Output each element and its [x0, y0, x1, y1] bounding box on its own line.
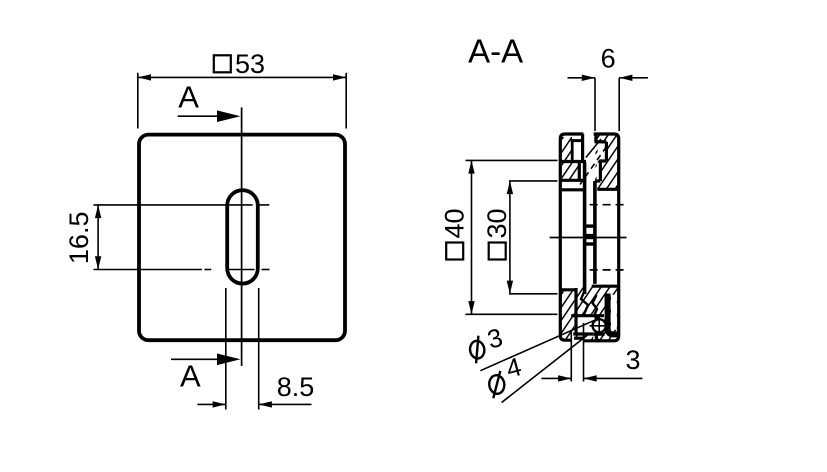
dim 30 extension lines — [509, 180, 558, 182]
svg-text:3: 3 — [625, 345, 640, 375]
leader dia3 — [480, 320, 594, 370]
label dia4 — [488, 351, 524, 398]
svg-text:3: 3 — [484, 322, 506, 355]
slot bottom edge left — [560, 288, 577, 291]
dim 6 line — [568, 77, 596, 79]
channel right wall — [593, 181, 597, 284]
dim 40 extension lines — [466, 159, 558, 161]
channel cross bars — [585, 224, 595, 227]
svg-text:6: 6 — [601, 43, 616, 73]
step left — [578, 161, 581, 180]
countersink zigzag right — [593, 295, 598, 317]
svg-text:16.5: 16.5 — [64, 212, 94, 265]
channel hatch diagonal — [586, 139, 601, 158]
section arrow bottom — [171, 354, 241, 366]
J hook — [608, 294, 618, 335]
dim 30 text — [482, 208, 512, 259]
hidden dashed bottom — [590, 269, 627, 271]
svg-text:53: 53 — [235, 49, 265, 79]
svg-text:40: 40 — [440, 208, 470, 238]
svg-text:30: 30 — [482, 208, 512, 238]
boss cavity top — [571, 314, 604, 317]
dim 40 line — [471, 160, 473, 314]
dim 40 text — [440, 208, 470, 259]
boss cavity bottom — [573, 332, 593, 335]
section arrow top — [178, 110, 241, 122]
outer contour of cap section — [560, 134, 583, 340]
dim 30 line — [509, 181, 511, 294]
screw cross — [590, 325, 610, 327]
boss cavity right wall — [595, 316, 598, 334]
channel dashed slant — [580, 147, 607, 185]
center line horizontal — [550, 237, 627, 239]
top arm bottom edge left — [561, 160, 586, 163]
dim 53 line — [138, 76, 346, 78]
slot top edge right — [597, 188, 617, 191]
dim 16.5 line — [97, 205, 99, 270]
svg-text:A: A — [180, 358, 201, 393]
below screw ledge — [593, 333, 604, 336]
leader dia4 — [502, 334, 590, 403]
dim 3 line — [541, 377, 571, 379]
channel left wall — [583, 162, 587, 294]
front view plate outline — [139, 135, 345, 341]
countersink zigzag left — [581, 291, 588, 316]
dim 3 extension lines — [570, 330, 572, 382]
dim 8.5 extension lines — [225, 288, 227, 410]
svg-text:8.5: 8.5 — [277, 372, 315, 402]
section line A — [241, 107, 243, 366]
svg-text:A-A: A-A — [468, 32, 523, 69]
label dia3 — [469, 322, 506, 363]
dim 53 extension lines — [137, 73, 139, 129]
slot — [227, 190, 258, 283]
hatch void overpaints — [572, 142, 617, 343]
top arm left piece right wall — [581, 134, 584, 161]
top arm inner line — [571, 139, 583, 142]
hook lower — [596, 334, 600, 341]
dim 6 extension lines — [594, 78, 596, 131]
hidden dashed top — [590, 204, 628, 206]
top arm right notch — [594, 134, 597, 142]
svg-text:A: A — [178, 79, 199, 114]
boss cavity left wall — [574, 288, 577, 334]
slot top edge left — [561, 188, 583, 191]
dim 53 text — [214, 49, 265, 79]
raised bottom segment — [574, 337, 584, 340]
svg-text:4: 4 — [503, 351, 525, 384]
top arm left slit — [571, 141, 574, 161]
dim 8.5 line — [197, 403, 225, 405]
screw circle — [593, 319, 606, 332]
slot bottom edge right — [592, 285, 618, 288]
hatch zones — [561, 135, 618, 340]
dim 16.5 extension lines — [94, 205, 270, 270]
